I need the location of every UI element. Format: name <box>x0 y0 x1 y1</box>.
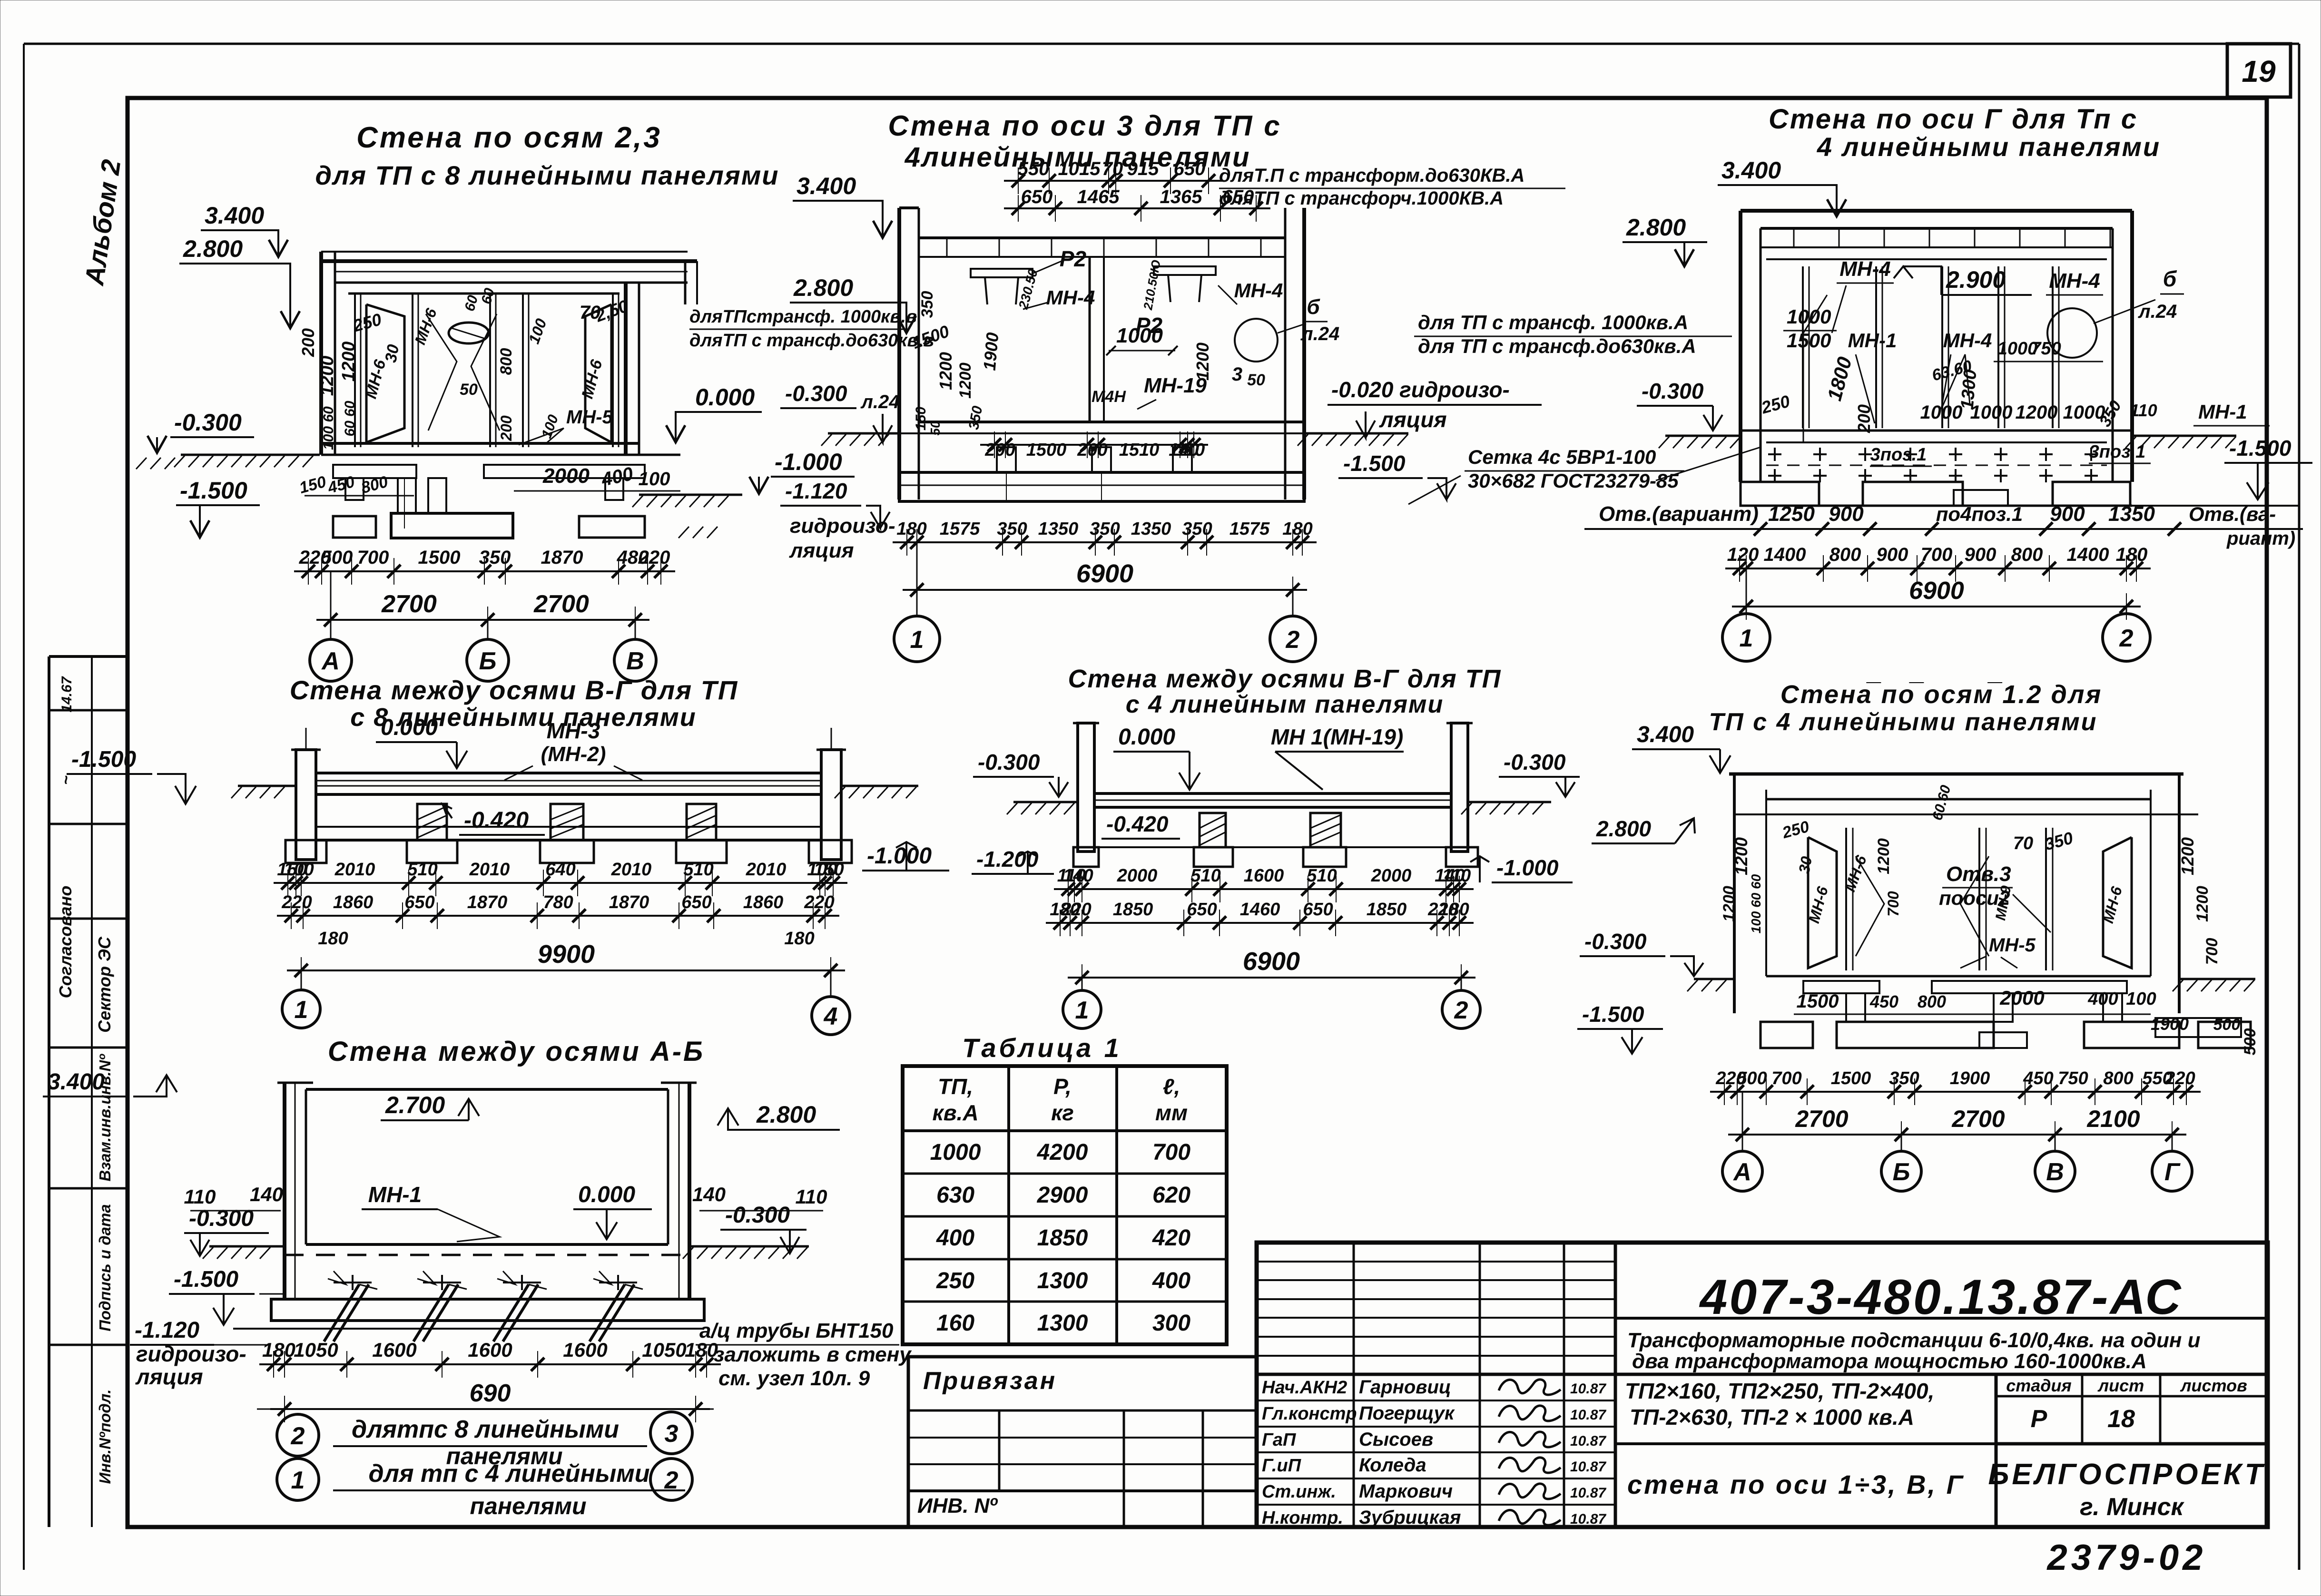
svg-text:780: 780 <box>543 892 573 912</box>
svg-text:500: 500 <box>2241 1028 2259 1056</box>
svg-text:для тп с 4 линейными: для тп с 4 линейными <box>369 1460 650 1488</box>
svg-text:МН-4: МН-4 <box>1839 257 1891 281</box>
svg-text:3поз.1: 3поз.1 <box>1870 445 1927 465</box>
svg-text:10.87: 10.87 <box>1570 1407 1606 1423</box>
dim chain D5 6900 <box>1068 977 1475 979</box>
svg-text:Стена между осями А-Б: Стена между осями А-Б <box>328 1036 705 1067</box>
svg-text:2010: 2010 <box>746 860 787 880</box>
structure walls right dwg <box>1741 209 2132 213</box>
svg-text:2379-02: 2379-02 <box>2046 1537 2207 1578</box>
svg-text:Подпись и дата: Подпись и дата <box>96 1204 114 1332</box>
structure BR <box>1729 773 2183 776</box>
axis bubble 1 (right dwg) <box>1746 568 1747 614</box>
svg-text:4: 4 <box>824 1003 838 1030</box>
svg-text:дляТПстрансф. 1000кв.в: дляТПстрансф. 1000кв.в <box>689 307 917 327</box>
svg-text:2.800: 2.800 <box>183 235 243 262</box>
soil hatch ticks below right ledge <box>679 527 689 538</box>
svg-text:110: 110 <box>796 1185 827 1208</box>
svg-text:650: 650 <box>1174 158 1206 179</box>
axis bubble 1 (D4) <box>301 970 302 990</box>
svg-text:650: 650 <box>404 892 434 912</box>
svg-text:-1.120: -1.120 <box>785 479 847 503</box>
svg-text:-0.300: -0.300 <box>785 381 847 406</box>
svg-text:60 60: 60 60 <box>342 401 358 436</box>
outer sheet border <box>24 43 2299 45</box>
svg-text:200: 200 <box>1854 404 1874 433</box>
axis bubble Г (BR) <box>2172 1135 2173 1151</box>
svg-text:700: 700 <box>1771 1068 1801 1088</box>
svg-text:Сетка 4с 5ВР1-100: Сетка 4с 5ВР1-100 <box>1468 446 1656 468</box>
svg-text:1500: 1500 <box>1787 329 1831 352</box>
axis bubble 2 (right dwg) <box>2126 607 2127 614</box>
dim chain D5 row1 <box>1054 888 1474 890</box>
svg-text:180: 180 <box>784 929 814 949</box>
svg-text:1200: 1200 <box>936 352 955 390</box>
svg-text:листов: листов <box>2180 1376 2247 1395</box>
svg-text:1575: 1575 <box>940 519 980 539</box>
svg-text:350: 350 <box>479 547 511 568</box>
svg-text:800: 800 <box>2011 544 2043 565</box>
svg-text:30×682 ГОСТ23279-85: 30×682 ГОСТ23279-85 <box>1468 470 1679 492</box>
interior diagonal leaders <box>426 314 457 431</box>
svg-text:2: 2 <box>1286 626 1300 654</box>
svg-text:а/ц трубы БНТ150: а/ц трубы БНТ150 <box>699 1319 894 1342</box>
footings D4 <box>285 840 326 863</box>
svg-text:-1.500: -1.500 <box>1582 1002 1644 1027</box>
title block outer <box>1257 1243 2268 1527</box>
svg-text:3: 3 <box>665 1420 679 1448</box>
interior panel verticals right dwg <box>1802 266 1804 428</box>
svg-text:Стена по оси Г для Тп с: Стена по оси Г для Тп с <box>1769 104 2138 135</box>
svg-text:1465: 1465 <box>1077 186 1120 207</box>
svg-text:19: 19 <box>2242 54 2276 88</box>
axis bubble 2 (D5) <box>1461 978 1462 990</box>
wall section structure <box>319 252 323 455</box>
svg-text:70: 70 <box>2013 833 2033 853</box>
svg-text:МН-5: МН-5 <box>1989 935 2036 956</box>
svg-text:700: 700 <box>1152 1140 1190 1165</box>
svg-text:-0.300: -0.300 <box>725 1203 790 1228</box>
svg-text:ТП-2×630, ТП-2 × 1000 кв.А: ТП-2×630, ТП-2 × 1000 кв.А <box>1630 1405 1914 1430</box>
svg-text:Стена по оси 3 для ТП с: Стена по оси 3 для ТП с <box>888 110 1281 142</box>
svg-text:200: 200 <box>498 415 515 441</box>
svg-text:дляТ.П с трансформ.до630КВ.А: дляТ.П с трансформ.до630КВ.А <box>1219 165 1524 186</box>
svg-text:6900: 6900 <box>1076 559 1133 588</box>
svg-text:2.800: 2.800 <box>756 1101 816 1128</box>
svg-text:700: 700 <box>357 547 389 568</box>
svg-text:3.400: 3.400 <box>1637 722 1694 747</box>
foundation piers <box>345 478 364 500</box>
svg-text:1300: 1300 <box>1037 1268 1088 1293</box>
foundation band middle <box>899 472 1304 501</box>
axis bubble А <box>330 571 332 639</box>
svg-text:750: 750 <box>2031 339 2061 359</box>
svg-text:9900: 9900 <box>538 940 595 969</box>
svg-text:2: 2 <box>664 1467 679 1494</box>
svg-text:стена по оси 1÷3, В, Г: стена по оси 1÷3, В, Г <box>1627 1469 1965 1499</box>
svg-text:1: 1 <box>1740 625 1753 652</box>
svg-text:900: 900 <box>2050 502 2085 526</box>
svg-text:см. узел 10л. 9: см. узел 10л. 9 <box>718 1367 870 1390</box>
svg-text:-0.300: -0.300 <box>1504 750 1566 774</box>
svg-text:Привязан: Привязан <box>923 1367 1057 1395</box>
leader to сетка note <box>1656 447 1760 480</box>
svg-text:1850: 1850 <box>1037 1225 1088 1251</box>
floor and soil right dwg <box>1741 430 2132 432</box>
svg-text:ТП,: ТП, <box>938 1074 973 1099</box>
svg-text:2: 2 <box>2119 625 2134 652</box>
svg-text:кв.А: кв.А <box>932 1100 978 1125</box>
svg-text:1015: 1015 <box>1058 158 1101 179</box>
svg-text:510: 510 <box>407 860 437 880</box>
svg-text:2100: 2100 <box>2086 1106 2140 1132</box>
svg-text:700: 700 <box>1885 891 1902 917</box>
svg-text:Гарновиц: Гарновиц <box>1359 1377 1451 1398</box>
svg-text:1000: 1000 <box>1787 305 1831 328</box>
right pylon D5 <box>1451 723 1468 852</box>
dim chain D6 <box>259 1363 721 1365</box>
svg-text:10.87: 10.87 <box>1570 1485 1606 1501</box>
svg-text:МН-4: МН-4 <box>1943 329 1992 352</box>
svg-text:900: 900 <box>1877 544 1908 565</box>
svg-text:Р,: Р, <box>1053 1074 1072 1099</box>
svg-text:110: 110 <box>1176 440 1205 460</box>
svg-text:-0.300: -0.300 <box>189 1206 254 1231</box>
svg-text:1050: 1050 <box>642 1339 686 1361</box>
below ground piers middle <box>997 447 1016 472</box>
svg-text:МН 1(МН-19): МН 1(МН-19) <box>1271 725 1404 749</box>
svg-text:1: 1 <box>910 626 924 654</box>
svg-text:Отв.3: Отв.3 <box>1946 862 2011 886</box>
svg-text:3поз.1: 3поз.1 <box>2089 442 2146 462</box>
svg-text:Гл.констр: Гл.констр <box>1262 1404 1357 1424</box>
svg-text:700: 700 <box>2203 938 2221 965</box>
label б / л.24 with circle <box>1235 319 1278 362</box>
svg-text:220: 220 <box>638 547 670 568</box>
top dim chain 550 1015 70 915 650 <box>1004 180 1223 182</box>
svg-text:1500: 1500 <box>1797 991 1839 1012</box>
staff rows <box>1257 1400 1615 1401</box>
svg-text:3.400: 3.400 <box>205 202 264 229</box>
svg-text:350: 350 <box>997 519 1027 539</box>
svg-text:Стена̅ по̅ осям̅ 1.2 для: Стена̅ по̅ осям̅ 1.2 для <box>1780 680 2103 709</box>
svg-text:Стена между осями В-Г для ТП: Стена между осями В-Г для ТП <box>1068 665 1502 693</box>
svg-text:1575: 1575 <box>1229 519 1270 539</box>
svg-text:650: 650 <box>1021 186 1053 207</box>
P2 table left <box>971 269 1033 277</box>
svg-text:2700: 2700 <box>533 590 589 618</box>
svg-text:Согласовано: Согласовано <box>56 886 75 999</box>
svg-text:220: 220 <box>281 892 312 912</box>
svg-text:-1.000: -1.000 <box>867 843 932 869</box>
svg-text:дляТП с трансф.до630кв.в: дляТП с трансф.до630кв.в <box>689 331 934 351</box>
svg-text:1: 1 <box>295 996 308 1024</box>
dim chain right dwg row1 <box>1725 568 2151 569</box>
legend circle 2 row1 (D6) <box>277 1414 319 1456</box>
svg-text:-1.500: -1.500 <box>71 747 136 772</box>
soil hatch D6 <box>209 1245 285 1248</box>
svg-text:70: 70 <box>1102 158 1123 179</box>
svg-text:450: 450 <box>2023 1068 2053 1088</box>
svg-text:1350: 1350 <box>1038 519 1079 539</box>
svg-text:220: 220 <box>804 892 834 912</box>
svg-text:620: 620 <box>1152 1183 1190 1208</box>
svg-text:Стена по осям 2,3: Стена по осям 2,3 <box>356 121 662 154</box>
svg-text:-1.000: -1.000 <box>1496 855 1559 880</box>
svg-text:700: 700 <box>1921 544 1953 565</box>
svg-text:630: 630 <box>936 1183 974 1208</box>
svg-text:-0.300: -0.300 <box>1584 929 1647 954</box>
svg-text:1460: 1460 <box>1240 900 1280 920</box>
svg-text:два трансформатора мощностью 1: два трансформатора мощностью 160-1000кв.… <box>1632 1350 2147 1373</box>
svg-text:по4поз.1: по4поз.1 <box>1936 503 2023 525</box>
svg-text:180: 180 <box>318 929 348 949</box>
inner dim row 200 1500 200 1510 140 110 <box>980 444 1208 446</box>
svg-text:800: 800 <box>497 348 515 375</box>
svg-text:30: 30 <box>382 343 403 364</box>
svg-text:В: В <box>2046 1158 2064 1186</box>
structure walls middle <box>899 206 919 209</box>
svg-text:1200: 1200 <box>317 356 337 396</box>
svg-text:МН-3: МН-3 <box>547 718 600 743</box>
svg-text:2700: 2700 <box>381 590 437 618</box>
svg-text:400: 400 <box>936 1225 974 1251</box>
svg-text:МН-4: МН-4 <box>2049 269 2100 293</box>
svg-text:180: 180 <box>685 1339 718 1361</box>
below ground anchors right dwg <box>1768 453 1781 455</box>
svg-text:заложить в стену: заложить в стену <box>714 1343 912 1366</box>
svg-text:1900: 1900 <box>980 332 1003 371</box>
svg-text:1300: 1300 <box>1957 369 1980 411</box>
svg-text:Зубрицкая: Зубрицкая <box>1359 1507 1461 1528</box>
svg-text:МН-1: МН-1 <box>2198 401 2247 423</box>
svg-text:1600: 1600 <box>372 1339 416 1361</box>
svg-text:г. Минск: г. Минск <box>2080 1493 2184 1521</box>
svg-text:л.24: л.24 <box>860 392 900 412</box>
svg-text:100: 100 <box>284 860 314 880</box>
svg-text:мм: мм <box>1155 1100 1188 1125</box>
sheet number box 19 <box>2227 44 2291 97</box>
svg-text:-1.200: -1.200 <box>976 847 1039 871</box>
svg-text:650: 650 <box>681 892 711 912</box>
svg-text:450: 450 <box>1869 992 1898 1011</box>
svg-text:Инв.Nºподл.: Инв.Nºподл. <box>96 1389 114 1484</box>
interior BR panels <box>1845 828 1847 970</box>
ledge below floor left <box>333 465 416 478</box>
inner ledges BR <box>1803 981 1879 993</box>
svg-text:1200: 1200 <box>1875 838 1893 874</box>
svg-text:для ТП с трансф. 1000кв.А: для ТП с трансф. 1000кв.А <box>1418 311 1688 333</box>
svg-text:стадия: стадия <box>2006 1376 2072 1395</box>
svg-text:В: В <box>626 647 644 675</box>
svg-text:длятпс 8 линейными: длятпс 8 линейными <box>352 1416 619 1443</box>
annex block Привязан <box>908 1357 1257 1527</box>
svg-text:407-3-480.13.87-АС: 407-3-480.13.87-АС <box>1699 1270 2183 1325</box>
svg-text:110: 110 <box>1442 866 1471 886</box>
svg-text:2000: 2000 <box>542 464 590 488</box>
svg-text:140: 140 <box>250 1183 283 1205</box>
svg-text:А: А <box>1732 1158 1751 1186</box>
axis bubble В (BR) <box>2055 1135 2056 1151</box>
svg-text:0.000: 0.000 <box>381 715 438 740</box>
svg-text:0.000: 0.000 <box>1118 725 1175 750</box>
svg-text:640: 640 <box>545 860 575 880</box>
floor and ground middle <box>919 421 1304 423</box>
svg-text:ляция: ляция <box>1379 407 1447 432</box>
svg-text:М4Н: М4Н <box>1092 388 1126 406</box>
svg-text:2: 2 <box>1454 997 1468 1024</box>
svg-text:кг: кг <box>1051 1100 1074 1125</box>
svg-text:750: 750 <box>2058 1068 2088 1088</box>
svg-text:2000: 2000 <box>1117 866 1158 886</box>
svg-text:1500: 1500 <box>1026 440 1067 460</box>
svg-text:1870: 1870 <box>609 892 649 912</box>
svg-text:510: 510 <box>1190 866 1220 886</box>
svg-text:1000: 1000 <box>930 1140 981 1165</box>
svg-text:-1.500: -1.500 <box>2229 436 2291 460</box>
svg-text:1500: 1500 <box>418 547 461 568</box>
svg-text:1500: 1500 <box>1831 1068 1871 1088</box>
svg-text:1: 1 <box>291 1467 305 1494</box>
svg-text:Трансформаторные подстанции 6-: Трансформаторные подстанции 6-10/0,4кв. … <box>1627 1329 2201 1352</box>
svg-text:1510: 1510 <box>1119 440 1160 460</box>
svg-text:2.900: 2.900 <box>1946 266 2006 293</box>
stage box grid <box>1995 1374 1998 1527</box>
dim chain D5 row2 <box>1046 922 1474 924</box>
P2 table right <box>1154 266 1216 275</box>
svg-text:3.400: 3.400 <box>1721 157 1781 184</box>
svg-text:6900: 6900 <box>1909 577 1964 605</box>
ledge below floor right <box>484 465 645 478</box>
axis bubble Б (BR) <box>1901 1135 1902 1151</box>
svg-text:350: 350 <box>1889 1068 1919 1088</box>
svg-text:2.700: 2.700 <box>385 1092 445 1118</box>
svg-text:2700: 2700 <box>1951 1106 2005 1132</box>
dim chain D6 6900 <box>270 1408 710 1410</box>
svg-text:510: 510 <box>683 860 713 880</box>
svg-text:2000: 2000 <box>1999 987 2044 1009</box>
svg-text:-0.420: -0.420 <box>464 808 529 833</box>
interior middle divider <box>1089 257 1091 422</box>
svg-text:МН-1: МН-1 <box>368 1182 422 1207</box>
svg-text:14.67: 14.67 <box>59 676 75 712</box>
svg-text:для ТП с трансф.до630кв.А: для ТП с трансф.до630кв.А <box>1418 335 1696 357</box>
svg-text:0.000: 0.000 <box>695 384 755 411</box>
svg-text:180: 180 <box>1282 519 1312 539</box>
svg-text:ляция: ляция <box>135 1364 203 1389</box>
axis bubble 2 (middle) <box>1292 590 1294 616</box>
svg-text:10.87: 10.87 <box>1570 1511 1606 1527</box>
svg-text:180: 180 <box>262 1339 295 1361</box>
svg-text:150: 150 <box>814 860 844 880</box>
left margin stamp column <box>49 655 128 658</box>
svg-text:(МН-2): (МН-2) <box>541 743 606 766</box>
title block revision columns <box>1353 1243 1355 1527</box>
svg-text:Г.иП: Г.иП <box>1262 1456 1301 1476</box>
svg-text:Стена между осями В-Г для ТП: Стена между осями В-Г для ТП <box>290 675 738 705</box>
svg-text:100: 100 <box>2126 989 2156 1009</box>
svg-text:ТП2×160, ТП2×250, ТП-2×400,: ТП2×160, ТП2×250, ТП-2×400, <box>1625 1379 1934 1403</box>
svg-text:1365: 1365 <box>1160 186 1203 207</box>
axis bubble Б <box>487 620 489 639</box>
svg-text:10.87: 10.87 <box>1570 1381 1606 1397</box>
legend circle 1 row2 (D6) <box>277 1459 319 1500</box>
svg-text:1600: 1600 <box>1244 866 1284 886</box>
svg-text:1: 1 <box>1075 997 1089 1024</box>
svg-text:Р: Р <box>2031 1405 2047 1433</box>
left pylon D4 <box>296 750 316 860</box>
svg-text:400: 400 <box>1152 1268 1190 1293</box>
svg-text:1200: 1200 <box>1731 837 1751 875</box>
svg-text:1200: 1200 <box>2178 837 2197 875</box>
svg-text:650: 650 <box>1187 900 1217 920</box>
svg-text:1000: 1000 <box>1920 402 1963 423</box>
dimension chain middle 6900 <box>903 589 1307 591</box>
svg-text:ляция: ляция <box>789 539 854 562</box>
svg-text:Сектор ЭС: Сектор ЭС <box>95 936 114 1033</box>
svg-text:1200: 1200 <box>956 362 974 399</box>
svg-text:Отв.(ва-: Отв.(ва- <box>2189 503 2276 525</box>
svg-text:110: 110 <box>184 1185 216 1208</box>
svg-text:с 4 линейным панелями: с 4 линейным панелями <box>1126 691 1444 718</box>
svg-text:800: 800 <box>1918 992 1946 1011</box>
svg-text:Р2: Р2 <box>1060 246 1087 271</box>
svg-text:140: 140 <box>1063 866 1093 886</box>
svg-text:1900: 1900 <box>1950 1068 1990 1088</box>
svg-text:2700: 2700 <box>1795 1106 1848 1132</box>
svg-text:50: 50 <box>1247 371 1265 389</box>
svg-text:2010: 2010 <box>334 860 375 880</box>
svg-text:1250: 1250 <box>1768 502 1815 526</box>
svg-text:-0.300: -0.300 <box>174 409 242 436</box>
hatched piers D5 <box>1200 813 1226 847</box>
svg-text:-0.420: -0.420 <box>1106 812 1169 836</box>
svg-text:100: 100 <box>639 469 670 490</box>
svg-text:А: А <box>321 647 340 675</box>
title block thin revision rows <box>1257 1261 1615 1263</box>
svg-text:180: 180 <box>896 519 926 539</box>
svg-text:панелями: панелями <box>470 1493 586 1519</box>
svg-text:550: 550 <box>1018 158 1050 179</box>
svg-text:2010: 2010 <box>611 860 652 880</box>
svg-text:1200: 1200 <box>2016 402 2058 423</box>
svg-text:10.87: 10.87 <box>1570 1433 1606 1449</box>
slab band D5 <box>1094 792 1451 795</box>
svg-text:Коледа: Коледа <box>1359 1455 1426 1476</box>
right pylon D4 <box>821 750 841 860</box>
svg-text:150: 150 <box>913 407 929 431</box>
svg-text:350: 350 <box>1090 519 1120 539</box>
legend circle 3 row1 (D6) <box>650 1412 692 1454</box>
panel trapezoid МН-6 left <box>366 304 404 442</box>
svg-text:2900: 2900 <box>1037 1183 1088 1208</box>
svg-text:1850: 1850 <box>1367 900 1407 920</box>
svg-text:Г: Г <box>2164 1158 2181 1186</box>
foundation blocks right dwg <box>1741 482 1819 506</box>
svg-text:лист: лист <box>2097 1376 2144 1395</box>
dimension chain row 1 <box>294 570 675 572</box>
svg-text:Ст.инж.: Ст.инж. <box>1262 1482 1336 1502</box>
title block divider under code <box>1615 1317 2268 1320</box>
svg-text:б: б <box>2163 266 2177 291</box>
footings BR <box>1760 1022 1813 1048</box>
svg-text:для ТП с 8 линейными панелями: для ТП с 8 линейными панелями <box>315 160 779 190</box>
svg-text:Б: Б <box>479 647 497 675</box>
svg-text:МН-4: МН-4 <box>1046 286 1095 309</box>
svg-text:1000: 1000 <box>1116 324 1163 347</box>
svg-text:Таблица 1: Таблица 1 <box>962 1033 1122 1063</box>
svg-text:2.800: 2.800 <box>1596 816 1652 841</box>
